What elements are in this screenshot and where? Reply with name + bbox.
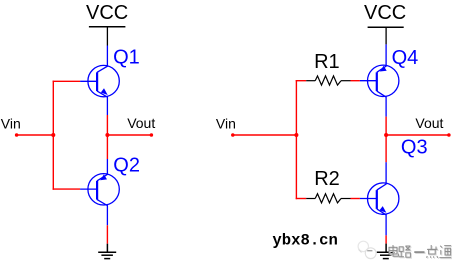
- svg-text:Vin: Vin: [216, 115, 236, 131]
- wire VCC stem black (left): [106, 27, 108, 46]
- VCC power bar (left): [89, 26, 126, 28]
- wire right input bus vertical: [295, 80, 297, 199]
- ground (right): [377, 244, 395, 259]
- wire bus to R2: [296, 198, 307, 200]
- wire VCC stem black (right): [385, 27, 387, 44]
- svg-text:ybx8.cn: ybx8.cn: [272, 232, 338, 250]
- junction dot Vout (left): [105, 133, 109, 137]
- svg-text:Q4: Q4: [392, 47, 419, 69]
- wire Q3 emitter to ground: [385, 235, 387, 243]
- wire Q2 collector to ground: [106, 225, 108, 243]
- svg-text:Q2: Q2: [113, 155, 140, 177]
- Vout endpoint dot (left): [150, 133, 154, 137]
- transistor Q3: [360, 162, 399, 235]
- wire to Q1 base: [53, 80, 81, 82]
- svg-text:R1: R1: [314, 51, 340, 73]
- Vin endpoint dot (left): [15, 133, 19, 137]
- svg-text:Q1: Q1: [113, 46, 140, 68]
- watermark text gray main copy: [389, 245, 451, 258]
- svg-text:R2: R2: [314, 168, 340, 190]
- wire R2 to Q3 base: [351, 198, 360, 200]
- transistor Q4: [360, 44, 399, 116]
- wire Vin (right): [233, 134, 297, 136]
- wire Q4 collector to Vout junction: [385, 117, 387, 135]
- junction dot Vin bus (left): [51, 133, 55, 137]
- ground (left): [98, 244, 116, 259]
- wire R1 to Q4 base: [351, 80, 360, 82]
- wire Vin (left): [17, 134, 54, 136]
- VCC power bar (right): [368, 26, 404, 28]
- svg-text:VCC: VCC: [364, 2, 406, 24]
- svg-text:Vin: Vin: [1, 115, 21, 131]
- watermark logo: [358, 241, 376, 258]
- wire left vertical bus: [52, 81, 54, 190]
- wire Vout junction to Q3 collector: [385, 135, 387, 162]
- wire Q1 emitter to Q2 emitter: [106, 115, 108, 159]
- wire Vout (left): [107, 134, 151, 136]
- Vout endpoint dot (right): [447, 133, 451, 137]
- junction dot input bus (right): [294, 133, 298, 137]
- svg-text:Q3: Q3: [401, 137, 428, 159]
- wire to Q2 base: [53, 188, 81, 190]
- svg-text:Vout: Vout: [415, 115, 443, 131]
- watermark text emboss light copy: [390, 246, 452, 259]
- Vin endpoint dot (right): [231, 133, 235, 137]
- transistor Q1: [80, 46, 119, 116]
- svg-text:VCC: VCC: [86, 2, 128, 24]
- wire bus to R1: [296, 80, 307, 82]
- junction dot Vout (right): [384, 133, 388, 137]
- svg-text:Vout: Vout: [127, 115, 155, 131]
- resistor R1: [306, 76, 350, 85]
- resistor R2: [306, 194, 350, 203]
- transistor Q2: [80, 159, 119, 225]
- wire Vout (right): [386, 134, 449, 136]
